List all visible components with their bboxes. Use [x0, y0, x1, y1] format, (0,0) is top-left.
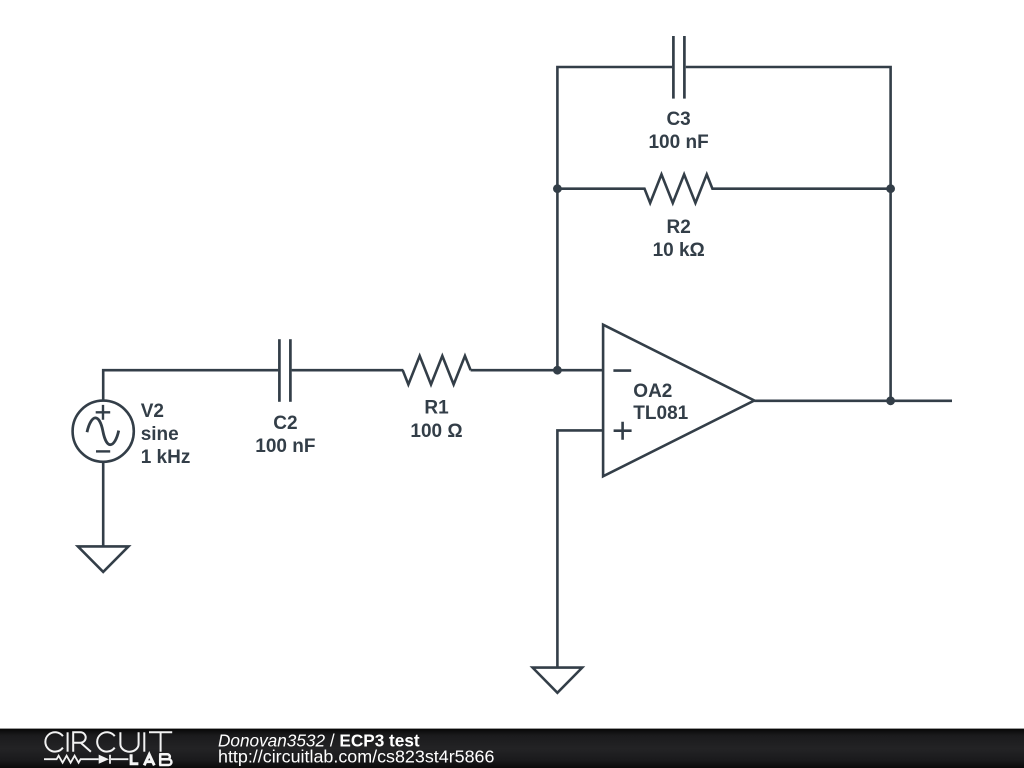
label R1 100 Ohm: [410, 398, 462, 442]
wire V2 top to C2 left plate: [103, 370, 278, 401]
op-amp OA2 triangle: [603, 325, 754, 477]
op-amp minus input symbol: [613, 369, 631, 372]
op-amp plus input symbol: [614, 422, 632, 440]
resistor R2: [557, 174, 890, 203]
svg-text:C2: C2: [273, 413, 297, 434]
svg-text:OA2: OA2: [633, 381, 672, 402]
wire non-inverting input to ground: [557, 430, 603, 667]
CircuitLab logo CIRCUIT letters: [45, 732, 172, 752]
label OA2 TL081: [633, 381, 688, 424]
svg-text:1 kHz: 1 kHz: [141, 447, 191, 468]
svg-text:10 kΩ: 10 kΩ: [653, 240, 705, 261]
voltage source V2: [73, 401, 134, 462]
svg-text:sine: sine: [141, 424, 179, 445]
capacitor C2: [279, 339, 290, 402]
logo resistor-diode squiggle: [44, 755, 128, 764]
wire C2 right plate to R1: [292, 369, 404, 372]
svg-text:C3: C3: [666, 109, 690, 130]
resistor R1: [403, 356, 471, 385]
svg-text:TL081: TL081: [633, 403, 688, 424]
capacitor C3: [673, 36, 684, 99]
ground (below V2): [78, 546, 129, 572]
svg-text:R1: R1: [424, 398, 449, 419]
svg-text:100 nF: 100 nF: [255, 436, 315, 457]
svg-text:R2: R2: [667, 217, 691, 238]
wire V2 bottom to ground: [102, 462, 105, 547]
svg-text:100 nF: 100 nF: [648, 132, 708, 153]
footer bar: [0, 729, 1024, 768]
node junction (R2 right): [886, 184, 895, 193]
label C3 100 nF: [648, 109, 708, 153]
logo LAB letter L: [131, 754, 138, 764]
wire R1 to op-amp inverting input: [471, 369, 603, 372]
label R2 10 kOhm: [653, 217, 705, 261]
node junction (inverting input): [553, 366, 562, 375]
svg-text:V2: V2: [141, 401, 164, 422]
node junction (output): [886, 396, 895, 405]
wire C3 right plate down right side to output node: [686, 67, 891, 401]
logo diode triangle: [99, 755, 109, 764]
label C2 100 nF: [255, 413, 315, 457]
label V2 sine 1 kHz: [141, 401, 191, 468]
node junction (R2 left): [553, 184, 562, 193]
wire op-amp output: [754, 399, 952, 402]
logo LAB letter B: [159, 754, 171, 765]
wire feedback left vertical to C3 left plate: [557, 67, 672, 370]
svg-text:http://circuitlab.com/cs823st4: http://circuitlab.com/cs823st4r5866: [218, 746, 494, 766]
svg-text:100 Ω: 100 Ω: [410, 421, 462, 442]
ground (below op-amp + input): [533, 668, 583, 693]
logo LAB letter A: [144, 755, 154, 766]
